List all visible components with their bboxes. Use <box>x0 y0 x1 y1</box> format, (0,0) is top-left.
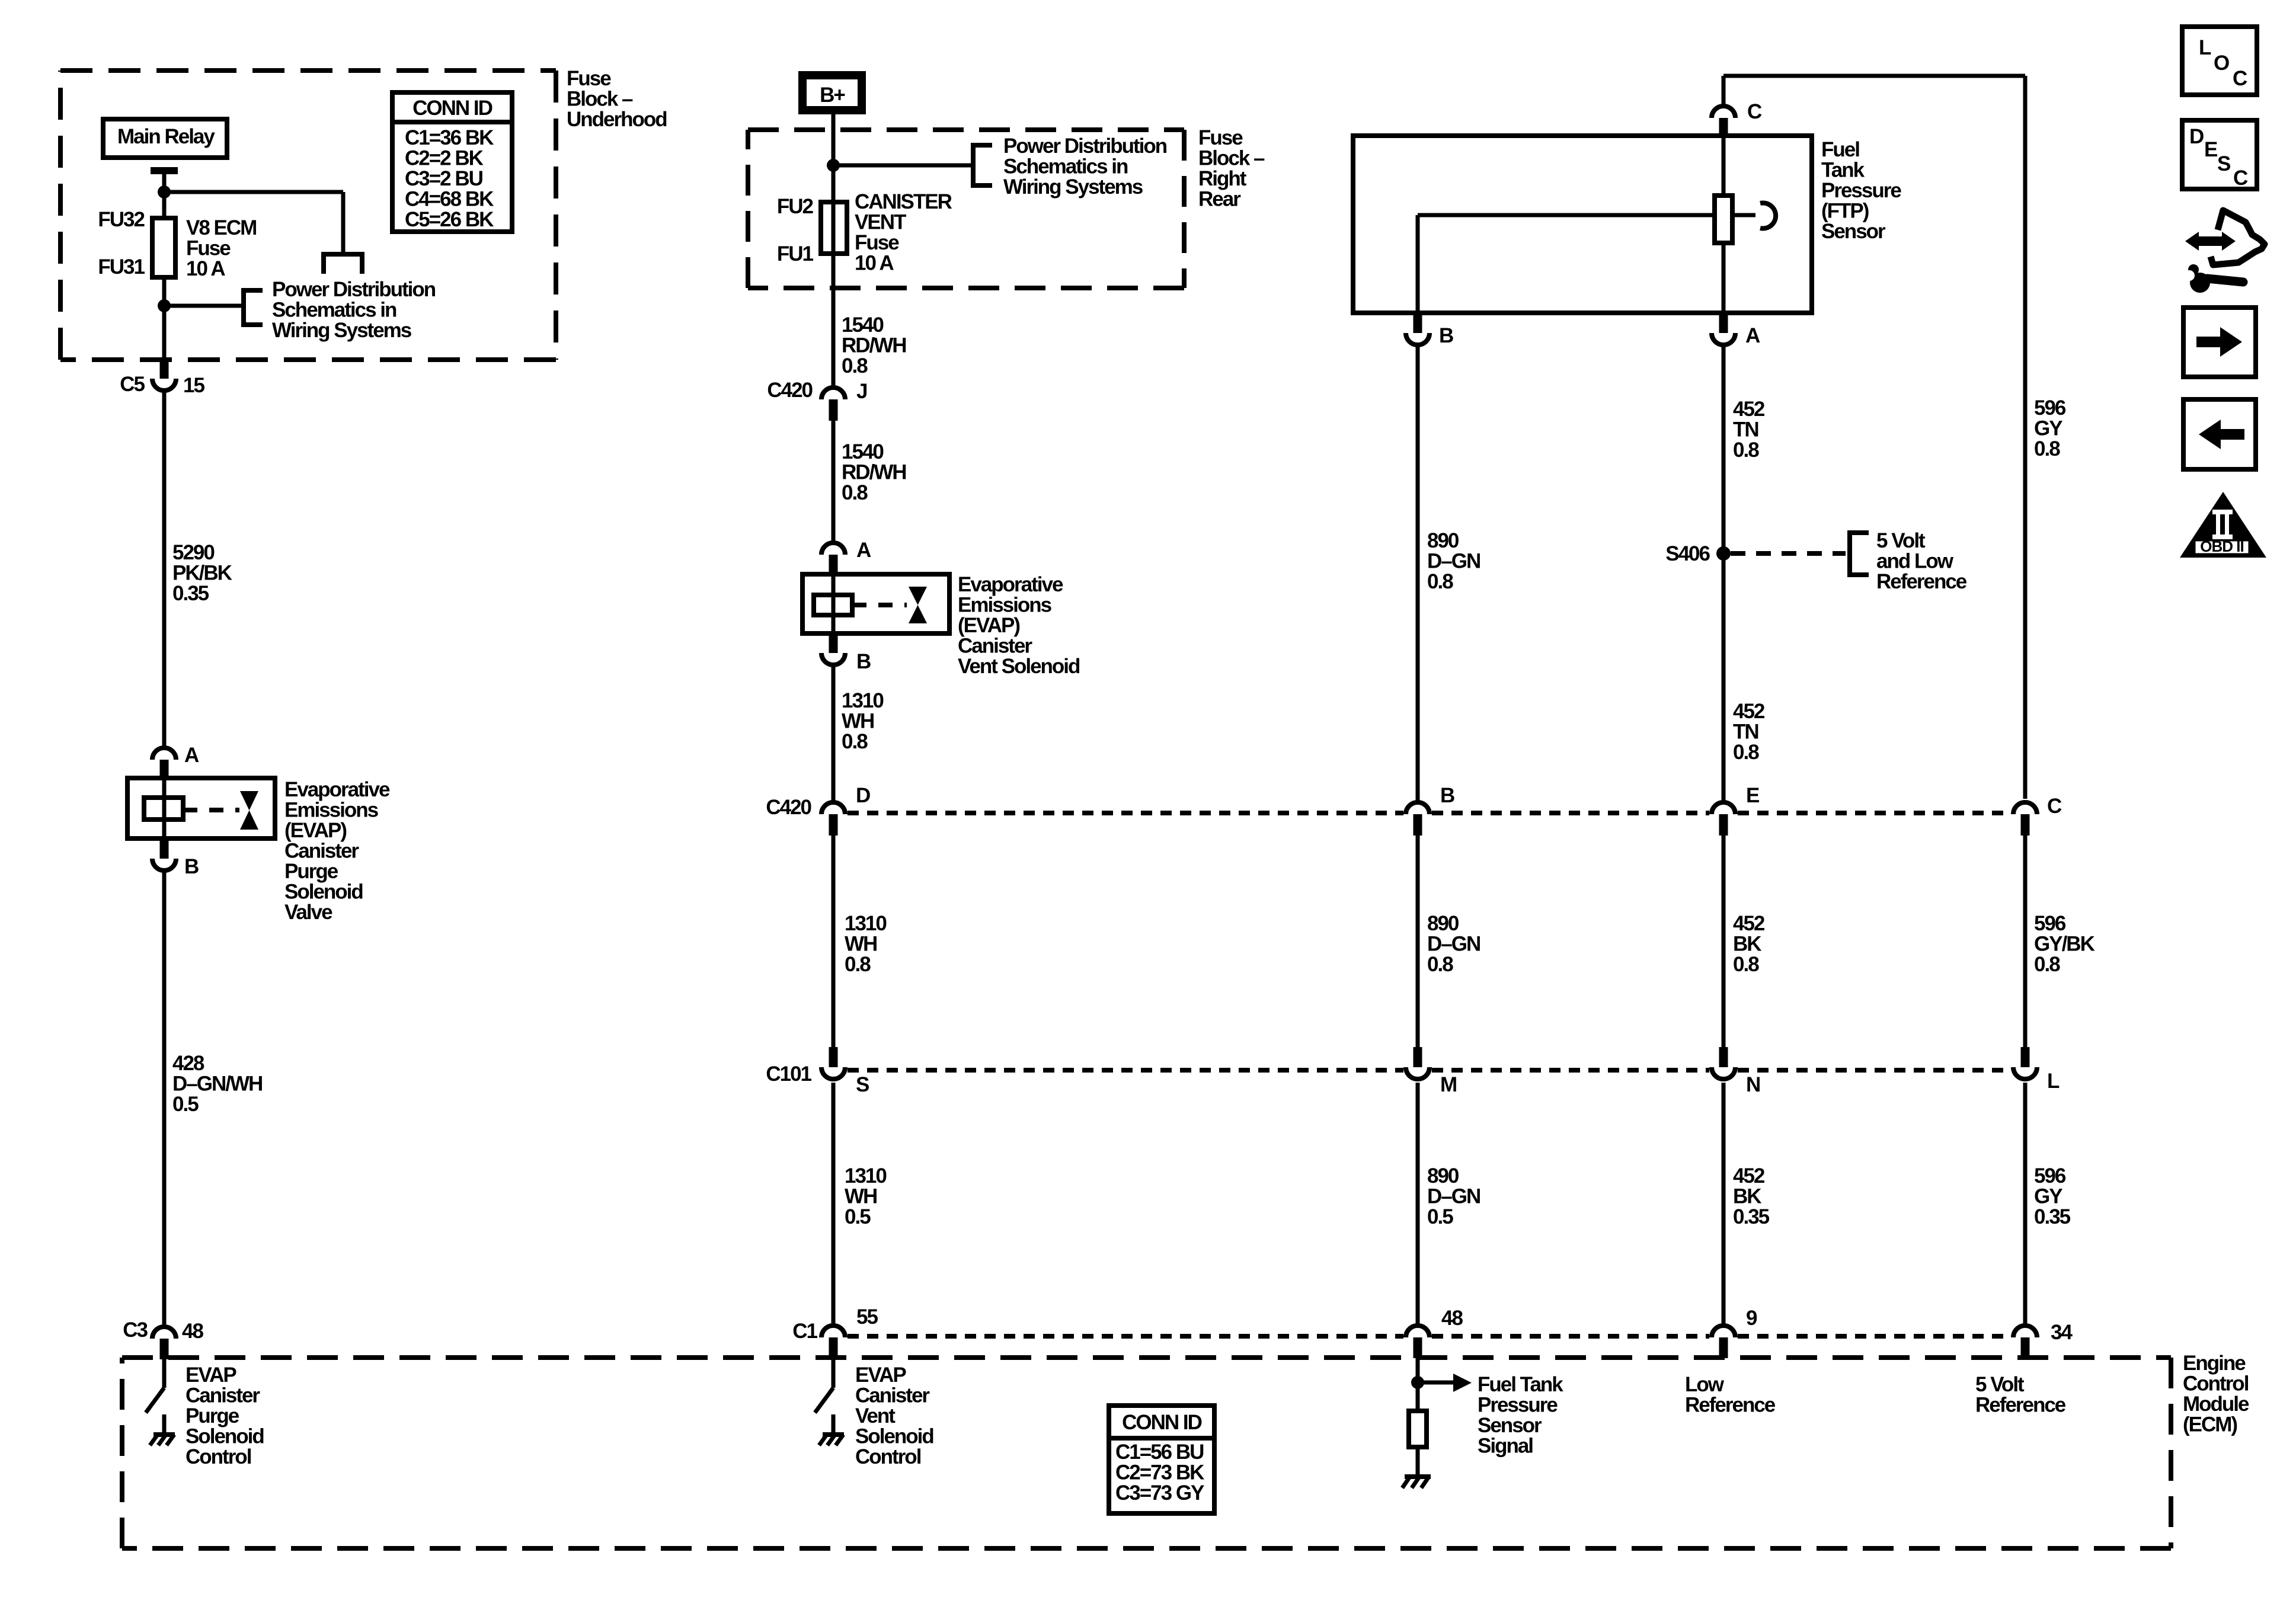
Fuel Tank Pressure (FTP) sensor box <box>1353 136 1812 313</box>
svg-text:A: A <box>856 539 871 562</box>
wire 1310 WH (1) <box>832 667 836 801</box>
svg-text:M: M <box>1440 1073 1456 1096</box>
svg-text:C1=56 BUC2=73 BKC3=73 GY: C1=56 BUC2=73 BKC3=73 GY <box>1115 1441 1204 1505</box>
wire: branch to power distribution (middle) <box>833 164 971 168</box>
svg-text:Main Relay: Main Relay <box>117 125 215 148</box>
svg-text:CONN ID: CONN ID <box>1122 1411 1202 1434</box>
connector C420 pin D <box>821 802 845 814</box>
svg-text:C101: C101 <box>766 1062 811 1086</box>
junction dot (B+ branch) <box>827 159 840 172</box>
ground (ECM internal) <box>1405 1474 1431 1479</box>
ECM driver: EVAP canister purge solenoid control <box>162 1358 167 1388</box>
svg-text:15: 15 <box>183 374 204 397</box>
svg-text:34: 34 <box>2051 1321 2073 1344</box>
wire: element to wiper <box>1732 213 1755 217</box>
connector B (purge solenoid) <box>160 838 169 859</box>
fuse block - right rear dashed box <box>748 127 1184 132</box>
svg-text:A: A <box>184 744 199 767</box>
wire 5290 PK/BK <box>162 392 167 746</box>
svg-text:OBD II: OBD II <box>2200 537 2243 555</box>
svg-text:B: B <box>1439 324 1453 347</box>
svg-text:C: C <box>2233 67 2247 90</box>
svg-text:B: B <box>184 855 199 878</box>
wire: branch drop <box>341 192 346 254</box>
svg-text:48: 48 <box>182 1320 203 1343</box>
icon: DESC box <box>2182 120 2257 189</box>
vent solenoid link (dashed) <box>852 603 907 607</box>
wire through purge solenoid <box>162 778 167 838</box>
wire: FTP C to 5V ref (top run) <box>1723 74 2025 78</box>
svg-text:S: S <box>2217 152 2230 175</box>
B+ power box <box>802 75 862 110</box>
connector C101 pin M <box>1414 1047 1422 1067</box>
FTP sensor wiper arc <box>1760 203 1776 229</box>
svg-text:D: D <box>2189 125 2204 148</box>
wire: pin 48 to resistor <box>1416 1358 1420 1411</box>
svg-text:FU2: FU2 <box>777 195 814 218</box>
svg-text:C: C <box>2047 795 2062 818</box>
EVAP canister vent solenoid box <box>802 574 949 633</box>
wire: element to pin A <box>1722 243 1726 313</box>
CONN ID table (fuse block underhood) <box>392 92 512 232</box>
svg-text:C: C <box>2233 167 2248 190</box>
wire: branch to bracket <box>164 304 244 308</box>
svg-text:FU1: FU1 <box>777 242 814 265</box>
Engine Control Module (ECM) dashed box <box>122 1355 2171 1360</box>
wire 890 D-GN (2) <box>1416 836 1420 1047</box>
EVAP canister purge solenoid valve box <box>127 778 275 838</box>
wire: C into sensor element <box>1722 136 1726 196</box>
wire: branch to power distribution (top) <box>164 190 343 194</box>
junction dot (relay output) <box>158 185 171 199</box>
vent solenoid coil <box>814 595 852 615</box>
wire 890 D-GN (3) <box>1416 1083 1420 1324</box>
wire 428 D-GN/WH <box>162 872 167 1325</box>
purge solenoid valve (bowtie) <box>240 791 258 811</box>
svg-text:B: B <box>1440 784 1454 807</box>
connector C1 pin 55 <box>821 1326 845 1337</box>
junction dot (to power distribution) <box>158 299 171 312</box>
connector C1 pin 48 <box>1406 1326 1430 1337</box>
connector A (FTP sensor) <box>1719 314 1728 333</box>
wire: sensor internal horizontal <box>1418 213 1715 217</box>
purge solenoid link (dashed) <box>183 808 239 812</box>
bracket (power distribution, down) <box>324 254 362 274</box>
connector B (FTP sensor) <box>1414 314 1422 333</box>
wire 452 TN (1) <box>1722 347 1726 801</box>
ECM driver: EVAP canister vent solenoid control <box>832 1358 836 1388</box>
wire: top to connector C <box>1722 76 1726 104</box>
wire: pin B rise inside sensor <box>1416 215 1420 313</box>
connector row C420 dashed line <box>848 811 1403 815</box>
connector C101 pin L <box>2021 1047 2030 1067</box>
connector C420 pin E <box>1712 802 1735 814</box>
dashed link: S406 to 5V/low ref <box>1731 551 1846 556</box>
svg-text:B+: B+ <box>820 84 845 107</box>
connector A (purge solenoid) <box>152 748 176 760</box>
icon: LOC box <box>2182 27 2257 95</box>
wire 596 GY (top drop) <box>2023 76 2028 799</box>
purge solenoid coil <box>144 798 183 820</box>
connector C3 pin 48 (ECM) <box>152 1327 176 1339</box>
fuse block - underhood dashed box <box>60 68 556 73</box>
connector C420 pin J <box>821 388 845 399</box>
icon: forward arrow box <box>2183 308 2256 377</box>
svg-text:L: L <box>2047 1070 2060 1093</box>
svg-text:O: O <box>2214 52 2229 75</box>
wire 1310 WH (2) <box>832 836 836 1047</box>
wire 596 GY/BK <box>2023 836 2028 1047</box>
svg-text:J: J <box>856 380 867 403</box>
connector C1 pin 34 <box>2013 1326 2037 1337</box>
wire: fuse to C5 <box>162 277 167 359</box>
svg-text:D: D <box>856 784 870 807</box>
icon: two-way arrow / vehicle / wrench <box>2197 236 2224 246</box>
arrowhead (FTP signal) <box>1453 1374 1472 1392</box>
fuse FU32/FU31 V8 ECM Fuse 10A <box>152 218 175 277</box>
svg-text:C1=36 BKC2=2 BKC3=2 BUC4=68 BK: C1=36 BKC2=2 BKC3=2 BUC4=68 BKC5=26 BK <box>405 126 494 231</box>
wire through vent solenoid <box>832 574 836 633</box>
CONN ID table (ECM) <box>1109 1406 1214 1513</box>
wire 1310 WH (3) <box>832 1083 836 1324</box>
wire: relay to fuse FU32 <box>162 171 167 218</box>
connector C (FTP sensor) <box>1712 106 1735 118</box>
icon: back arrow box <box>2183 399 2256 469</box>
svg-text:B: B <box>856 650 871 673</box>
connector row C101 dashed line <box>848 1068 1403 1073</box>
FTP sensor element <box>1715 196 1732 243</box>
svg-text:C420: C420 <box>766 796 811 819</box>
icon: OBD II triangle <box>2180 492 2266 558</box>
svg-text:CONN ID: CONN ID <box>412 97 493 120</box>
wire 452 BK (1) <box>1722 836 1726 1047</box>
connector C101 pin S <box>829 1047 838 1067</box>
svg-text:E: E <box>2204 138 2217 161</box>
wire: resistor to ground <box>1416 1447 1420 1477</box>
svg-text:S406: S406 <box>1665 542 1710 565</box>
svg-text:S: S <box>856 1073 869 1096</box>
vent solenoid valve (bowtie) <box>909 587 927 605</box>
svg-text:C1: C1 <box>792 1320 817 1343</box>
junction dot (FTP signal) <box>1411 1376 1424 1389</box>
wire: B+ to C420 J <box>832 114 836 386</box>
svg-text:C5: C5 <box>120 373 145 396</box>
wire 1540 RD/WH (lower) <box>832 421 836 541</box>
connector C101 pin N <box>1719 1047 1728 1067</box>
wire 596 GY (3) <box>2023 1083 2028 1324</box>
connector B (vent solenoid) <box>829 633 838 653</box>
wire 890 D-GN (1) <box>1416 347 1420 801</box>
connector C420 pin C <box>2013 802 2037 814</box>
resistor (ECM pull) <box>1409 1411 1427 1447</box>
Main Relay box <box>103 119 227 158</box>
wire: arrow to Fuel Tank Pressure Sensor Signal <box>1418 1381 1453 1385</box>
svg-text:55: 55 <box>856 1305 878 1329</box>
svg-text:C3: C3 <box>123 1318 148 1342</box>
svg-text:C420: C420 <box>767 379 813 402</box>
fuse FU2/FU1 CANISTER VENT Fuse 10A <box>821 202 847 254</box>
svg-text:C: C <box>1747 100 1762 123</box>
wire 452 BK (2) <box>1722 1083 1726 1324</box>
svg-text:A: A <box>1745 324 1760 347</box>
splice S406 <box>1716 546 1731 561</box>
connector C420 pin B <box>1406 802 1430 814</box>
connector A (vent solenoid) <box>821 543 845 555</box>
svg-text:48: 48 <box>1441 1307 1463 1330</box>
svg-text:L: L <box>2199 36 2211 59</box>
svg-text:N: N <box>1746 1073 1760 1096</box>
connector C5 pin 15 <box>160 359 169 379</box>
svg-text:9: 9 <box>1746 1307 1757 1330</box>
connector row C1 dashed line <box>848 1334 1403 1339</box>
svg-text:FU32: FU32 <box>98 208 145 231</box>
relay terminal bar <box>151 167 178 174</box>
svg-text:FU31: FU31 <box>98 255 145 279</box>
svg-text:E: E <box>1746 784 1759 807</box>
connector C1 pin 9 <box>1712 1326 1735 1337</box>
